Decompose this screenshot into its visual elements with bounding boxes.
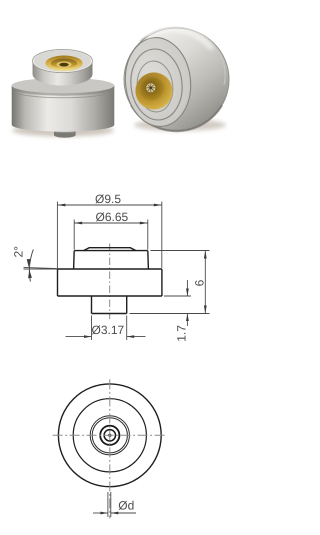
photo: left part flange bbox=[12, 78, 115, 132]
dimension Ød bbox=[93, 492, 136, 517]
section outline: flange top edge bbox=[58, 268, 162, 270]
bottom view outer circle bbox=[58, 384, 161, 487]
bottom view horizontal centerline bbox=[53, 434, 167, 436]
bottom view center hole dot bbox=[108, 434, 111, 437]
section outline: top plateau bbox=[84, 248, 137, 251]
photo: right part gold contact bbox=[135, 72, 172, 109]
section outline: stub bottom edge bbox=[92, 313, 127, 315]
section outline: stub right side bbox=[126, 296, 128, 314]
svg-text:1.7: 1.7 bbox=[175, 325, 189, 342]
bottom view second circle bbox=[73, 399, 146, 472]
section outline: boss top edge bbox=[74, 250, 148, 252]
svg-text:Ød: Ød bbox=[118, 499, 134, 513]
photo: left part stub bbox=[54, 122, 76, 138]
bottom view bold ring bbox=[100, 426, 119, 445]
section outline: flange bottom edge bbox=[58, 295, 162, 297]
section outline: boss left side bbox=[73, 251, 76, 269]
photo: right part shadow bbox=[134, 119, 226, 131]
photo: left part shadow bbox=[12, 125, 114, 137]
dimension Ø6.65 bbox=[74, 220, 148, 250]
bottom view double ring inner bbox=[92, 418, 127, 453]
svg-text:Ø9.5: Ø9.5 bbox=[95, 192, 121, 206]
photo: right part body bbox=[121, 27, 229, 131]
svg-text:Ø3.17: Ø3.17 bbox=[92, 323, 125, 337]
centerline vertical section view bbox=[109, 244, 111, 320]
svg-text:Ø6.65: Ø6.65 bbox=[96, 210, 129, 224]
dimension Ø3.17 bbox=[66, 316, 146, 341]
svg-text:2°: 2° bbox=[12, 246, 26, 258]
dimension 2 degrees bbox=[24, 250, 58, 282]
svg-text:6: 6 bbox=[193, 279, 207, 286]
section outline: flange right side bbox=[161, 269, 163, 296]
section outline: boss right side bbox=[147, 251, 150, 269]
section outline: stub left side bbox=[91, 296, 93, 314]
dimension Ø9.5 bbox=[57, 202, 161, 269]
dimension 6 bbox=[130, 251, 210, 314]
photo: right part groove circles bbox=[127, 47, 185, 123]
dimension 1.7 bbox=[164, 280, 191, 326]
bottom view double ring outer bbox=[90, 416, 129, 455]
photo: left part gold insert bbox=[45, 56, 82, 71]
photo: left part top cylinder bbox=[33, 49, 93, 85]
bottom view vertical centerline bbox=[109, 379, 111, 518]
section outline: flange left side bbox=[57, 269, 59, 296]
